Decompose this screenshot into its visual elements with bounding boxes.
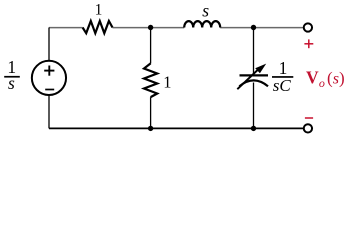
svg-text:Vo(s): Vo(s) — [306, 67, 345, 90]
svg-text:1: 1 — [279, 58, 288, 78]
svg-text:s: s — [8, 73, 15, 93]
svg-text:1: 1 — [95, 1, 103, 18]
svg-text:s: s — [202, 0, 209, 20]
svg-text:1: 1 — [163, 73, 171, 92]
svg-text:sC: sC — [273, 76, 292, 95]
